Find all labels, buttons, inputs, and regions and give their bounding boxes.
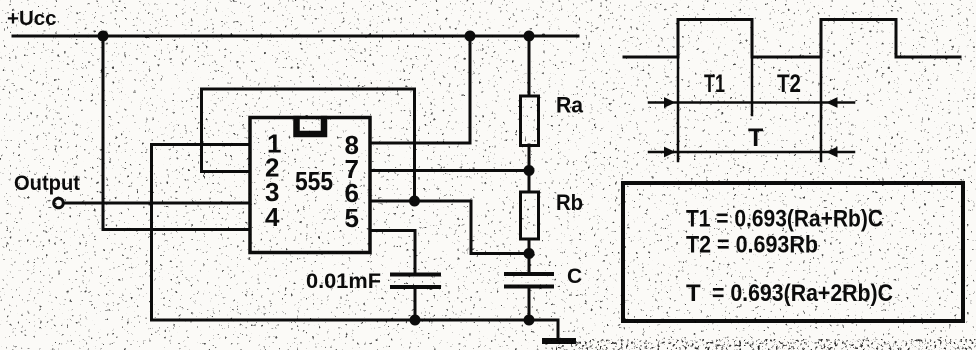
- capacitor 0.01mF bottom plate: [392, 285, 439, 289]
- wire ground rail to ground symbol: [529, 320, 558, 339]
- wire pin 1 to ground left vertical and bottom ground rail: [152, 145, 559, 321]
- wire pin 2 bridge over chip to pin 6: [202, 89, 415, 201]
- 555 chip notch: [297, 119, 325, 134]
- wire +Ucc rail to Ra: [528, 36, 531, 95]
- node junction dot Rb/C/pin6: [524, 248, 535, 259]
- node junction dot Ra branch on rail: [524, 31, 535, 42]
- arrowhead left-pointing at T2 row: [826, 97, 838, 108]
- dimension arrow line T row: [649, 151, 854, 154]
- node Output terminal circle: [54, 198, 64, 208]
- node junction dot C/ground rail: [524, 315, 535, 326]
- dimension arrow line T1-T2 row: [649, 101, 854, 104]
- ground symbol bar: [545, 338, 573, 344]
- waveform dimension line right (T end): [820, 57, 823, 161]
- capacitor C bottom plate: [506, 285, 552, 289]
- capacitor 0.01mF top plate: [392, 273, 439, 277]
- arrowhead right-pointing at T1 row: [664, 97, 676, 108]
- wire Rb to capacitor C: [528, 239, 531, 272]
- waveform dimension line left (T start): [677, 57, 680, 161]
- arrowhead left-pointing at T row: [826, 147, 838, 158]
- capacitor C top plate: [506, 272, 552, 276]
- op-amp U1 555 chip body: [250, 118, 370, 253]
- formula box frame: [623, 183, 963, 321]
- wire Ra to Rb: [528, 145, 531, 192]
- node junction dot 0.01mF/ground rail: [410, 315, 421, 326]
- wire from +Ucc rail down to pin 4: [103, 36, 250, 230]
- resistor Rb body: [521, 192, 539, 239]
- node junction dot on +Ucc rail at x=103: [98, 31, 109, 42]
- wire pin 6 to Rb/C junction: [370, 201, 529, 254]
- resistor Ra body: [521, 96, 539, 146]
- wire +Ucc top rail: [13, 35, 578, 38]
- wire capacitor C to ground rail: [528, 288, 531, 320]
- scan bottom edge noise band: [556, 339, 976, 350]
- waveform dimension line middle (T1/T2 divide): [751, 57, 754, 115]
- node junction dot pin6/bridge: [409, 196, 420, 207]
- waveform square wave trace: [624, 20, 960, 58]
- arrowhead right-pointing at T row: [664, 147, 676, 158]
- node junction dot pin8 riser on rail: [465, 31, 476, 42]
- wire 0.01mF capacitor to ground rail: [414, 289, 417, 320]
- wire pin 5 to 0.01mF capacitor: [370, 231, 415, 273]
- wire pin 7 to Ra/Rb junction: [370, 169, 529, 172]
- wire pin 8 to +Ucc rail: [370, 36, 470, 143]
- wire output to pin 3: [64, 202, 250, 205]
- node junction dot pin7 on Ra-Rb wire: [524, 165, 535, 176]
